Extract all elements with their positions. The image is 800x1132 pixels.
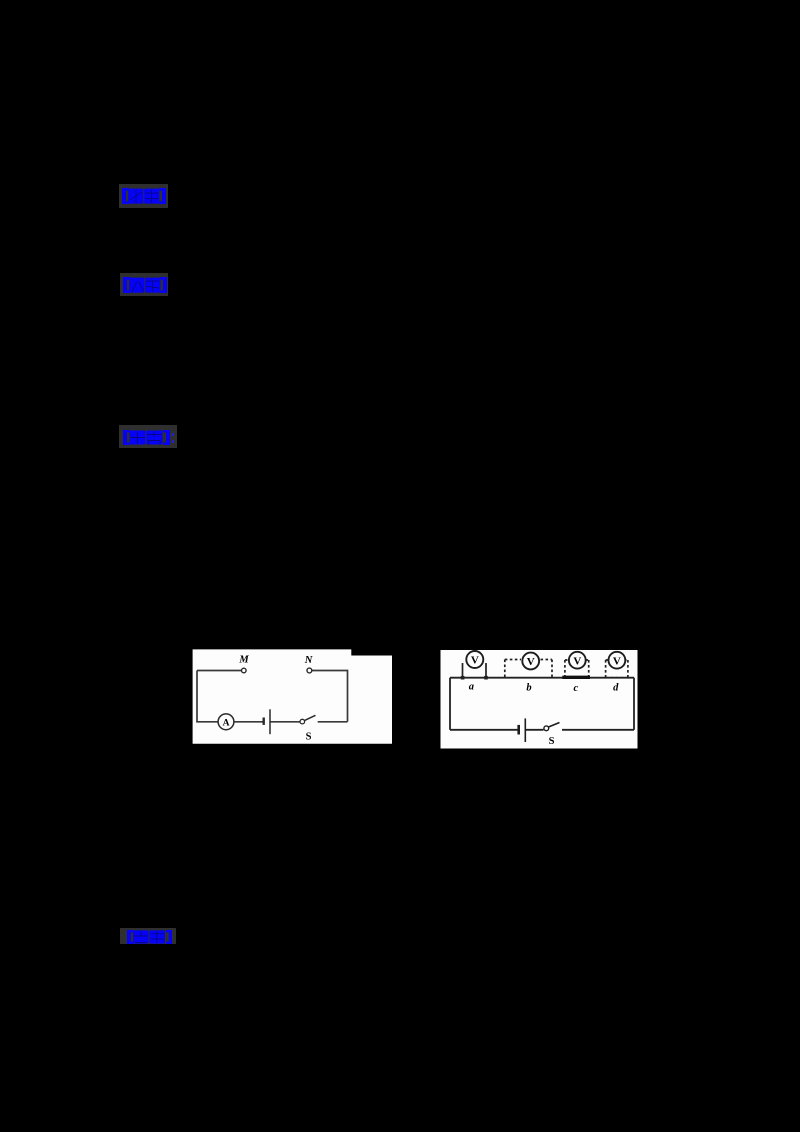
svg-text:d: d	[613, 683, 619, 694]
battery	[519, 718, 526, 742]
label text 1	[122, 188, 166, 204]
wire: switch to bottom right corner	[318, 721, 348, 723]
wire: right side	[633, 678, 635, 730]
svg-text:M: M	[238, 654, 249, 665]
wire: bottom left to battery	[450, 729, 518, 731]
figure 2 white background	[441, 650, 638, 749]
figure 2: circuit with four voltmeters over segments a b c d, battery, switch S	[440, 650, 638, 749]
svg-text:V: V	[613, 655, 621, 667]
voltmeter V over c (dashed box, thick segment)	[562, 652, 590, 678]
wire: left side down and bottom to ammeter	[197, 671, 218, 722]
voltmeter V over d (dashed box)	[606, 652, 628, 678]
label text 3	[123, 430, 170, 445]
wire: ammeter to battery	[234, 721, 263, 723]
svg-text:S: S	[549, 736, 555, 747]
terminal M	[242, 668, 247, 673]
figure 1: series circuit with ammeter, battery, switch S, terminals M N	[192, 649, 393, 744]
svg-text:c: c	[573, 683, 578, 694]
battery	[264, 709, 270, 734]
svg-text:a: a	[469, 682, 474, 693]
svg-text:V: V	[527, 656, 535, 668]
label text 2	[123, 277, 167, 293]
wire: top left segment to terminal M	[197, 670, 242, 672]
wire: battery to switch	[526, 729, 544, 731]
svg-text:A: A	[223, 718, 230, 728]
label box 2 (【分析】 highlight)	[120, 273, 169, 296]
faint colon after label 3	[172, 433, 174, 436]
label box 1 (【考点】 highlight)	[119, 184, 168, 208]
label text 4	[127, 930, 173, 944]
terminal N	[307, 668, 312, 673]
svg-text:S: S	[306, 732, 312, 743]
ammeter A	[218, 714, 234, 730]
label box 3 (【解答】 highlight)	[119, 425, 177, 449]
voltmeter V over a (solid connection)	[461, 651, 488, 680]
svg-text:N: N	[304, 655, 313, 666]
svg-text:b: b	[526, 683, 531, 694]
wire: battery to switch	[271, 721, 301, 723]
switch S	[300, 715, 316, 724]
wire: terminal N to top right corner, down right side	[312, 671, 348, 722]
label box 4 (【点评】 highlight)	[120, 928, 176, 944]
wire: left side	[449, 678, 451, 730]
svg-text:V: V	[471, 655, 479, 667]
switch S	[544, 723, 560, 731]
svg-text:V: V	[573, 655, 581, 667]
figure 1 white background	[193, 649, 392, 743]
voltmeter V over b (dashed box)	[505, 653, 552, 678]
wire: main loop top	[450, 677, 634, 679]
wire: switch to bottom right	[562, 729, 634, 731]
